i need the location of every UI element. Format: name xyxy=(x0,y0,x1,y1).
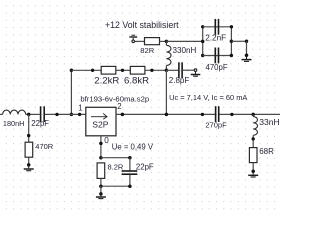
ground under 470R xyxy=(24,163,34,171)
svg-text:22pF: 22pF xyxy=(136,162,154,171)
wire emitter bottom rail xyxy=(101,185,130,187)
corner node top-left xyxy=(201,25,204,28)
svg-text:Uc = 7,14 V, Ic = 60 mA: Uc = 7,14 V, Ic = 60 mA xyxy=(169,93,247,102)
svg-text:270pF: 270pF xyxy=(205,120,227,129)
wire S2P pin 0 down xyxy=(100,136,102,158)
ground terminal after 2.8pF xyxy=(191,69,201,76)
wire 8.2R to bottom rail xyxy=(100,178,102,186)
wire between 2.2kR and 6.8kR xyxy=(116,69,131,71)
resistor 82R xyxy=(145,38,160,45)
svg-text:2.2kR: 2.2kR xyxy=(94,75,119,86)
node divider left top xyxy=(70,69,74,73)
node C junction xyxy=(27,113,31,117)
svg-text:Ue = 0,49 V: Ue = 0,49 V xyxy=(112,143,154,152)
resistor 68R xyxy=(249,148,257,163)
capacitor block right vertical wire xyxy=(230,27,232,56)
svg-text:68R: 68R xyxy=(259,147,274,156)
wire 6.8kR to node B xyxy=(145,69,167,71)
wire 470R to ground xyxy=(28,157,30,165)
capacitor block left vertical wire xyxy=(202,27,204,56)
capacitor 470pF xyxy=(215,48,218,64)
wire right tap to ground drop xyxy=(231,40,246,42)
wire 68R to ground xyxy=(252,163,254,172)
capacitor 2.8pF xyxy=(179,62,182,78)
S2P arrow xyxy=(91,114,107,120)
node collector junction xyxy=(165,113,169,117)
node mid output xyxy=(230,113,233,116)
resistor 6.8kR xyxy=(130,66,145,74)
node after pin 2 xyxy=(121,113,125,117)
svg-text:1: 1 xyxy=(78,104,82,113)
resistor 8.2R xyxy=(97,163,105,179)
svg-text:330nH: 330nH xyxy=(173,46,197,55)
node B junction xyxy=(165,69,169,73)
svg-text:bfr193-6v-60ma.s2p: bfr193-6v-60ma.s2p xyxy=(80,94,149,103)
ground under emitter xyxy=(96,192,106,198)
wire bottom rail to ground xyxy=(100,186,102,194)
wire node A to cap block xyxy=(166,40,202,42)
wire ground drop xyxy=(246,41,248,55)
inductor 33nH xyxy=(253,114,257,147)
resistor 470R xyxy=(25,142,33,157)
svg-text:82R: 82R xyxy=(140,46,154,55)
wire bottom branch xyxy=(203,55,232,57)
wire S2P pin 2 to 270pF xyxy=(116,113,215,115)
capacitor 270pF xyxy=(216,106,219,122)
wire power to R 82R xyxy=(135,40,145,42)
wire 22pF branch lead xyxy=(129,158,131,171)
wire divider rail left vertical xyxy=(70,70,72,114)
wire node B down to collector rail xyxy=(165,70,167,114)
inductor 330nH xyxy=(166,41,171,70)
node cap block left tap xyxy=(201,40,205,44)
op-amp U1 S2P two-port box xyxy=(86,107,116,136)
svg-text:S2P: S2P xyxy=(92,119,109,129)
svg-text:6.8kR: 6.8kR xyxy=(124,75,149,86)
svg-text:2.2nF: 2.2nF xyxy=(205,33,226,42)
node after 6.8kR xyxy=(150,69,153,72)
node after input cap xyxy=(55,113,58,116)
node bottom rail right xyxy=(128,184,132,188)
node before pin 1 xyxy=(78,113,81,116)
wire node C down to 470R xyxy=(28,114,30,142)
capacitor 22pF emitter xyxy=(122,171,138,174)
corner node bottom-right xyxy=(230,54,233,57)
node pin 0 xyxy=(99,142,103,146)
svg-text:0: 0 xyxy=(104,136,109,145)
power symbol +12V rail xyxy=(129,35,137,42)
node emitter junction top xyxy=(99,156,103,160)
svg-text:2: 2 xyxy=(117,102,121,111)
wire divider rail to 2.2kR xyxy=(71,69,101,71)
wire 270pF to output xyxy=(219,113,280,115)
svg-text:470R: 470R xyxy=(35,142,54,151)
wire 22pF to bottom rail xyxy=(129,175,131,186)
node before 270pF xyxy=(201,113,204,116)
svg-text:22pF: 22pF xyxy=(31,119,49,128)
wire top branch xyxy=(203,26,232,28)
svg-text:8.2R: 8.2R xyxy=(108,162,124,171)
wire 2.8pF to ground terminal xyxy=(183,69,195,71)
svg-text:470pF: 470pF xyxy=(206,63,228,72)
node before 2.2kR xyxy=(91,69,94,72)
wire 82R to node A xyxy=(160,40,167,42)
node above 470R xyxy=(27,134,30,137)
node 33nH to 68R xyxy=(252,137,255,140)
node divider left bottom xyxy=(70,113,74,117)
corner node bottom-left xyxy=(201,54,204,57)
svg-text:2.8pF: 2.8pF xyxy=(169,76,190,85)
wire node B to 2.8pF xyxy=(166,69,178,71)
wire emitter to 22pF branch xyxy=(101,157,130,159)
node 22pF branch top xyxy=(128,156,132,160)
svg-text:180nH: 180nH xyxy=(3,119,25,128)
capacitor 2.2nF xyxy=(215,19,218,35)
ground under 68R xyxy=(248,170,258,177)
resistor 2.2kR xyxy=(101,66,116,74)
capacitor 22pF input xyxy=(41,106,45,122)
svg-text:33nH: 33nH xyxy=(259,117,280,127)
node between resistors xyxy=(121,69,124,72)
node bottom rail left xyxy=(99,184,103,188)
wire 180nH to node C xyxy=(26,113,40,115)
ground top right xyxy=(242,53,252,61)
node A junction xyxy=(165,40,169,44)
node cap block right tap xyxy=(230,40,234,44)
node output junction xyxy=(251,113,255,117)
inductor 180nH xyxy=(0,110,26,114)
svg-text:+12 Volt stabilisiert: +12 Volt stabilisiert xyxy=(105,20,179,30)
node ground drop top xyxy=(245,40,249,44)
corner node top-right xyxy=(230,25,233,28)
wire 22pF to S2P pin 1 xyxy=(45,113,86,115)
